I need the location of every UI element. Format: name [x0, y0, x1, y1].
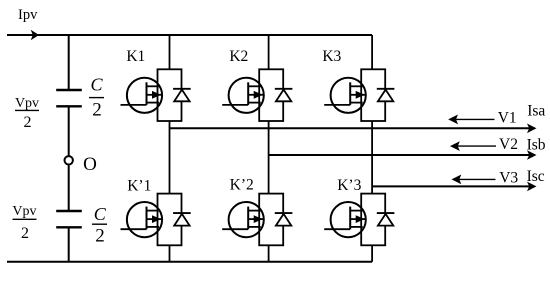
transistor K'3 body circle: [331, 202, 366, 237]
transistor K'2 body stub with arrow: [248, 218, 264, 220]
svg-text:K1: K1: [126, 48, 145, 65]
transistor K'3 drain stub: [350, 210, 363, 212]
svg-text:K’3: K’3: [337, 177, 361, 194]
svg-text:C: C: [90, 75, 103, 95]
wire: phase B output line: [269, 154, 530, 156]
arrowhead of phase B line (Isb direction): [527, 150, 537, 160]
svg-text:Vpv: Vpv: [12, 204, 36, 219]
wire: leg 1 midsection between switches: [169, 121, 171, 194]
transistor K2 source stub: [248, 102, 261, 104]
svg-text:2: 2: [95, 226, 105, 247]
wire: leg 1 from top rail to upper switch: [169, 35, 171, 69]
wire: left branch bottom segment: [68, 227, 70, 261]
svg-text:V1: V1: [498, 110, 517, 127]
transistor K'1 body stub with arrow: [147, 218, 163, 220]
arrowhead of phase C line (Isc direction): [527, 182, 537, 192]
transistor K3 gate lead: [324, 104, 350, 106]
diode of K2 triangle: [276, 90, 291, 102]
switch K2 cell rectangle: [259, 69, 283, 121]
diode of K3 cathode bar: [377, 88, 395, 90]
diode of K3 triangle: [378, 90, 393, 102]
svg-text:O: O: [83, 154, 97, 175]
transistor K2 gate bar: [247, 82, 249, 105]
transistor K'2 source stub: [248, 226, 261, 228]
transistor K'2 gate lead: [222, 228, 248, 230]
wire: leg 3 from lower switch to bottom rail: [371, 245, 373, 261]
capacitor C/2 upper, plate 2: [56, 105, 82, 107]
transistor K3 gate bar: [349, 82, 351, 105]
transistor K'1 body circle: [127, 202, 162, 237]
transistor K'2 gate bar: [247, 207, 249, 230]
wire: left branch between upper capacitor and node O: [68, 106, 70, 156]
wire: leg 3 from top rail to upper switch: [371, 35, 373, 69]
transistor K'3 body stub with arrow: [350, 218, 366, 220]
node O circle: [65, 156, 73, 164]
transistor K1 source stub: [147, 102, 160, 104]
switch K'2 cell rectangle: [259, 194, 283, 246]
svg-text:V3: V3: [499, 170, 518, 187]
transistor K1 body stub with arrow: [147, 94, 163, 96]
voltage arrow V3 (points left): [459, 178, 496, 180]
wire: leg 1 from lower switch to bottom rail: [169, 245, 171, 261]
svg-text:C: C: [94, 204, 107, 224]
wire: leg 2 from top rail to upper switch: [268, 35, 270, 69]
diode of K'2 triangle: [276, 214, 291, 226]
transistor K1 gate bar: [146, 82, 148, 105]
wire: left branch top segment: [68, 35, 70, 90]
transistor K1 gate lead: [121, 104, 147, 106]
transistor K'2 body circle: [229, 202, 264, 237]
switch K'3 cell rectangle: [361, 194, 385, 246]
transistor K3 drain stub: [350, 85, 363, 87]
wire: leg 3 midsection between switches: [371, 121, 373, 194]
transistor K1 drain stub: [147, 85, 160, 87]
capacitor C/2 lower, plate 2: [56, 226, 82, 228]
transistor K3 body circle: [331, 78, 366, 113]
arrowhead of phase A line (Isa direction): [527, 124, 537, 134]
svg-text:2: 2: [92, 100, 102, 121]
switch K3 cell rectangle: [361, 69, 385, 121]
svg-text:2: 2: [21, 225, 29, 242]
transistor K3 body stub with arrow: [350, 94, 366, 96]
transistor K'1 drain stub: [147, 210, 160, 212]
capacitor C/2 upper, plate 1: [56, 89, 82, 91]
svg-text:Vpv: Vpv: [15, 96, 39, 111]
Ipv current arrowhead on top rail: [31, 30, 39, 40]
transistor K'1 gate lead: [121, 228, 147, 230]
transistor K1 body circle: [127, 78, 162, 113]
wire: left branch between node O and lower capacitor: [68, 164, 70, 211]
transistor K3 source stub: [350, 102, 363, 104]
voltage arrow V1 (points left): [455, 118, 494, 120]
transistor K2 body stub with arrow: [248, 94, 264, 96]
wire: phase A output line: [170, 127, 530, 129]
transistor K'2 drain stub: [248, 210, 261, 212]
capacitor C/2 lower, plate 1: [56, 210, 82, 212]
diode of K'1 cathode bar: [173, 212, 191, 214]
transistor K'3 gate lead: [324, 228, 350, 230]
transistor K'3 source stub: [350, 226, 363, 228]
transistor K'3 gate bar: [349, 207, 351, 230]
switch K'1 cell rectangle: [158, 194, 182, 246]
diode of K'3 triangle: [378, 214, 393, 226]
svg-text:Isa: Isa: [527, 102, 545, 119]
svg-text:K’2: K’2: [230, 177, 254, 194]
diode of K1 cathode bar: [173, 88, 191, 90]
diode of K1 triangle: [174, 90, 189, 102]
svg-text:K3: K3: [322, 48, 341, 65]
svg-text:Isc: Isc: [527, 168, 545, 185]
transistor K2 gate lead: [222, 104, 248, 106]
svg-text:2: 2: [24, 114, 32, 131]
top DC rail: [7, 34, 372, 36]
voltage arrow V2 (points left): [457, 145, 496, 147]
transistor K'1 gate bar: [146, 207, 148, 230]
svg-text:K2: K2: [229, 48, 248, 65]
transistor K'1 source stub: [147, 226, 160, 228]
wire: leg 2 midsection between switches: [268, 121, 270, 194]
transistor K2 body circle: [229, 78, 264, 113]
diode of K'3 cathode bar: [377, 212, 395, 214]
transistor K2 drain stub: [248, 85, 261, 87]
svg-text:Ipv: Ipv: [18, 7, 38, 23]
bottom DC rail: [7, 261, 372, 263]
wire: phase C output line: [372, 185, 529, 187]
switch K1 cell rectangle: [158, 69, 182, 121]
svg-text:V2: V2: [499, 136, 518, 153]
diode of K'2 cathode bar: [275, 212, 293, 214]
svg-text:Isb: Isb: [527, 136, 546, 153]
svg-text:K’1: K’1: [127, 177, 151, 194]
wire: leg 2 from lower switch to bottom rail: [268, 245, 270, 261]
diode of K'1 triangle: [174, 214, 189, 226]
diode of K2 cathode bar: [275, 88, 293, 90]
